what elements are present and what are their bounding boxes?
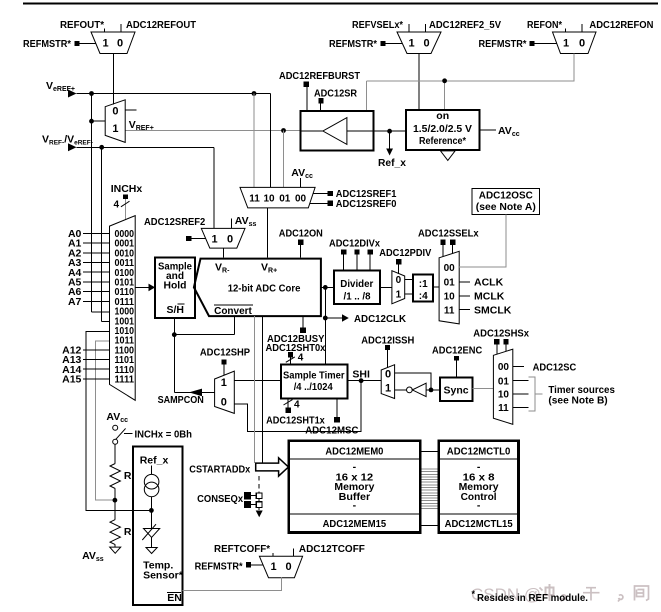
wire VeREF+ down to channel mux input 1000 and to mux U4 input 1 [89,94,109,313]
net ADC12OSC to mux U8 input 00 [459,215,506,268]
svg-text:0: 0 [117,38,123,50]
svg-text:ADC12ENC: ADC12ENC [432,344,483,356]
svg-text:ADC12REFON: ADC12REFON [589,19,653,31]
bracket timer sources [529,377,543,411]
svg-text:ADC12SHSx: ADC12SHSx [473,327,529,339]
wire switch to resistor R1 [114,444,116,463]
wire ADC12BUSY from core [302,316,304,327]
label SHI [352,369,370,381]
svg-text:-: - [477,500,481,512]
label AVcc above SREF mux [291,167,313,180]
svg-text:Resides in REF module.: Resides in REF module. [477,593,588,604]
svg-text:Ref_x: Ref_x [140,455,169,467]
svg-text:/1 .. /8: /1 .. /8 [344,290,371,302]
open squares on sequence line [256,493,262,508]
net EN from mux U13 to temp sensor [183,578,282,591]
svg-text:01: 01 [444,278,456,289]
svg-text:ADC12SC: ADC12SC [533,361,577,373]
label SAMPCON [158,394,204,406]
pin square ADC12SHT0x with bus slash 4 [286,352,304,364]
svg-text:CSTARTADDx: CSTARTADDx [189,464,250,476]
mux U3 REFON (1 0) [553,32,597,54]
buffer amplifier U5 (reference buffer) [300,111,373,151]
wire buffer output to reference block [373,129,406,134]
svg-text:REFMSTR*: REFMSTR* [23,38,72,50]
net SHI routed down to SHP mux input 0 [234,381,361,432]
block arrow CSTARTADDx into memory [256,458,289,476]
switch INCHx = 0Bh [113,425,133,444]
pin stub ADC12REFON to mux U3 [581,24,583,32]
svg-text:0: 0 [227,234,233,246]
label AVss above mux U6 [235,215,257,228]
wire REFMSTR* to mux U13 [251,564,263,566]
svg-text:AVss: AVss [235,215,257,228]
memory buffer block ADC12MEM [289,441,421,533]
label CONSEQx [197,493,243,505]
wire REFMSTR* to mux U1 [80,43,96,45]
mux U2 REFVSEL (1 0) [397,32,441,54]
wire REFMSTR* to mux U2 [386,43,403,45]
svg-text:1: 1 [408,38,414,50]
svg-text:(see Note B): (see Note B) [548,395,607,407]
pin stub AVss to mux U6 input 0 [230,219,232,229]
wire SHS mux output to Sync [472,387,493,389]
pin squares ADC12DIVx [341,249,373,254]
wire ADC12ISSH into mux U10 [386,350,388,368]
pin ADC12SREF0 [310,198,397,210]
svg-text:REFOUT*: REFOUT* [60,19,105,31]
svg-text:Divider: Divider [340,278,373,290]
wires timer source inputs [513,381,529,408]
pin stub ADC12REFOUT to mux U1 [120,24,122,32]
pin stub REFON* to mux U3 [565,29,567,33]
node Ref_x output arrow [386,131,393,155]
svg-text:REFON*: REFON* [527,19,563,31]
wire ADC12SC input [513,361,577,373]
svg-text:00: 00 [498,362,510,373]
wire U1 output down to mux U4 input 0 [113,54,115,105]
label Ref_x inside temp sensor [140,455,169,467]
label ADC12PDIV [379,247,431,259]
svg-text:S/H: S/H [167,304,185,316]
svg-text:/4 ../1024: /4 ../1024 [294,381,333,393]
label REFTCOFF* [214,543,271,555]
svg-text:R: R [124,526,132,538]
svg-text:Convert: Convert [214,305,252,317]
svg-text:00: 00 [295,193,307,204]
pin square ADC12REFBURST [304,82,310,88]
wires :1 :4 box to mux U7 [405,280,414,295]
op-amp 12-bit ADC Core [194,259,321,317]
svg-text:ADC12REF2_5V: ADC12REF2_5V [429,19,501,31]
label REFVSELx* [352,19,404,31]
wire channel mux output into sample and hold [135,284,155,292]
label VeREF+ input [46,80,75,93]
wire ADC12PDIV into mux U7 [398,264,400,273]
svg-text:Sample Timer: Sample Timer [283,370,345,382]
pin squares CONSEQx [244,492,251,508]
inverter U11 [395,383,427,396]
label AVcc at battery switch [106,411,128,424]
svg-text:1: 1 [112,123,118,135]
svg-text:R: R [124,470,132,482]
net SAMPCON from mux U9 to S/H and core convert [172,316,234,396]
svg-text:1: 1 [385,382,391,394]
label AVcc at reference right [480,125,520,138]
current source I1 [144,474,159,496]
mux U7 PDIV (0 1) [392,271,405,304]
net SHI from ISSH mux output to sample timer [347,378,381,383]
wire divider node to R2 [114,500,116,519]
mux U1 REFOUT (1 0) [91,32,135,54]
svg-text:ADC12MEM15: ADC12MEM15 [323,518,387,530]
pin square ADC12PDIV [396,259,401,264]
pin square REFMSTR* U2 [381,41,386,46]
pin square ADC12SHP [222,359,227,364]
wire MEM15 to MCTL15 [420,524,439,526]
svg-text:Hold: Hold [164,279,187,291]
label AVss [82,550,104,563]
analog inputs A12-A15 [62,344,109,385]
pin stub ADC12REF2_5V to mux U2 [424,24,426,32]
svg-text:INCHx: INCHx [111,183,143,195]
stub on mux U4 output 0 [125,109,136,111]
channel input mux (16:1) [110,216,136,401]
svg-text:01: 01 [498,376,510,387]
net REFON enable: U3 output down, left along y=80.8, taps to reference and buffer [366,54,574,111]
label ADC12DIVx [329,238,380,250]
svg-text:-: - [353,500,357,512]
ground marker below reference block [441,151,456,161]
wire R1 to divider node [113,489,118,503]
analog inputs A0-A7 [68,228,110,308]
svg-text:1: 1 [221,377,227,389]
block ADC12OSC (see Note A) [472,189,539,215]
diode D1 temp sense [142,524,159,540]
svg-text:4: 4 [114,200,120,211]
label REFON* [527,19,563,31]
svg-text:00: 00 [444,263,456,274]
svg-text:SMCLK: SMCLK [474,304,512,316]
label ADC12SHP [200,346,250,358]
pin square ADC12ENC [454,356,459,361]
svg-text:11: 11 [498,403,509,414]
resistor R2 [110,520,132,545]
label ADC12BUSY [267,333,324,345]
wire VREF- down to channel mux input 1001 [102,147,110,321]
wire conversion data from core to memory (black) [262,316,264,463]
pin square REFMSTR* U1 [75,41,80,46]
svg-text:0: 0 [285,561,291,573]
svg-text::1: :1 [419,279,428,290]
wire conversion data from core to memory (gray) [254,316,256,463]
label ADC12ENC [432,344,483,356]
label ADC12SR [314,88,357,100]
svg-text:0: 0 [579,38,585,50]
pin stub REFVSELx* to mux U2 [408,24,410,32]
svg-text:ADC12DIVx: ADC12DIVx [329,238,380,250]
wire MCLK input [459,291,505,303]
wire SMCLK input [459,304,512,316]
svg-text:AVss: AVss [82,550,104,563]
temp sensor block [133,447,183,605]
divider block /1../8 [334,270,380,303]
svg-text:on: on [436,110,449,122]
svg-text:Ref_x: Ref_x [378,157,406,169]
wire U7 output to divider [380,286,392,288]
wire ADC12SHP into mux U9 [223,364,225,375]
wire ADC12SREF2 to mux U6 [192,238,206,240]
label ADC12SREF2 [144,216,205,228]
svg-text:REFTCOFF*: REFTCOFF* [214,543,271,555]
label ADC12TCOFF [299,543,366,555]
predivider block :1 :4 [413,274,433,302]
label REFMSTR* (U1 select) [23,38,72,50]
wire U6 output to ADC core VR- [222,248,224,258]
wire current source to diode, node [149,497,154,529]
input arrow VREF- [68,143,77,151]
svg-text:REFMSTR*: REFMSTR* [479,38,528,50]
label ADC12CLK [354,313,406,325]
sample timer block [281,364,348,398]
mux U10 ISSH (0 1) [381,365,394,399]
svg-text:10: 10 [498,390,510,401]
wires ADC12SSELx into mux U8 [443,245,453,257]
pin ADC12SREF1 [313,188,397,200]
label ADC12REF2_5V [429,19,501,31]
reference block (1.5/2.0/2.5 V Reference*) [406,110,480,150]
input arrow VeREF+ [68,90,77,98]
svg-text:ADC12SHP: ADC12SHP [200,346,250,358]
wire U2 output down into reference block [418,54,420,111]
mux U6 SREF2 (1 0) [201,228,245,248]
label ADC12REFOUT [126,19,197,31]
pin square ADC12ISSH [385,345,390,350]
label ADC12SHSx [473,327,529,339]
svg-text:1: 1 [102,38,108,50]
svg-text:4: 4 [298,352,304,363]
pin square ADC12SREF2 [186,236,191,241]
label ADC12REFON [589,19,653,31]
label REFMSTR* (U2 select) [329,38,378,50]
watermark [471,584,649,604]
svg-text:REFMSTR*: REFMSTR* [329,38,378,50]
svg-text::4: :4 [419,291,428,302]
svg-text:10: 10 [263,193,275,204]
svg-text:01: 01 [279,193,291,204]
svg-text:AVcc: AVcc [106,411,128,424]
svg-text:VREF+: VREF+ [129,119,154,132]
sample and hold block [155,258,195,319]
wire SREF mux output to ADC core VR+ [266,208,268,258]
svg-text:0: 0 [112,106,118,118]
svg-text:*: * [472,589,476,599]
wire REFMSTR* to mux U3 [535,43,557,45]
wire ADC12ENC into Sync [455,361,457,378]
mux U8 SSEL (00 01 10 11) [439,251,459,324]
svg-text:A7: A7 [68,296,82,308]
net temp sensor channel 1010 [86,331,151,510]
svg-text:(see Note A): (see Note A) [476,201,536,213]
svg-text:A15: A15 [62,374,81,386]
label ADC12ISSH [361,334,414,346]
ground AVss below R2 [110,545,121,554]
svg-text:ADC12SREF0: ADC12SREF0 [336,198,397,210]
label INCHx = 0Bh [135,429,193,441]
svg-text:12-bit ADC Core: 12-bit ADC Core [228,282,301,294]
svg-text:1111: 1111 [115,375,135,386]
wires ADC12SHSx into mux U12 [497,344,506,354]
pin square ADC12BUSY [300,328,306,334]
svg-text:4: 4 [294,400,300,411]
svg-text:ACLK: ACLK [474,277,504,289]
wire MEM0 to MCTL0 [420,451,439,453]
wires CONSEQx to dashed sequence line [251,496,256,505]
svg-text:0: 0 [221,396,227,408]
svg-text:1: 1 [563,38,569,50]
wire ADC12REFBURST into buffer [306,87,308,111]
svg-text:AVcc: AVcc [291,167,313,180]
label Timer sources (see Note B) [548,384,615,407]
label REFMSTR* (U3 select) [479,38,528,50]
svg-text:ADC12PDIV: ADC12PDIV [379,247,431,259]
pin square REFMSTR* U3 [530,41,535,46]
svg-text:AVcc: AVcc [498,125,520,138]
label INCHx [111,183,143,195]
ground marker below diode [146,537,157,553]
pin stub AVcc to SREF mux input 00 [299,178,301,187]
svg-text:Sensor*: Sensor* [143,570,184,582]
svg-text:MCLK: MCLK [474,291,505,303]
svg-text:10: 10 [444,292,456,303]
memory control block ADC12MCTL [439,441,519,533]
label REFOUT* [60,19,105,31]
svg-text:VR-: VR- [215,262,230,275]
pin stub REFTCOFF* to mux U13 [272,553,274,557]
svg-text:ADC12OSC: ADC12OSC [479,190,533,202]
pin stub REFOUT* to mux U1 [103,29,105,33]
svg-text:11: 11 [444,305,455,316]
svg-text:1: 1 [211,234,217,246]
label Ref_x [378,157,406,169]
svg-text:REFVSELx*: REFVSELx* [352,19,404,31]
label VREF+ [129,119,154,132]
resistor R1 [110,464,132,489]
wire ADC12SR into buffer [320,103,322,111]
svg-text:0: 0 [396,275,402,286]
svg-text:ADC12MCTL15: ADC12MCTL15 [445,518,513,530]
dashed conversion sequence line with arrow [256,476,263,517]
label REFMSTR* (U13 select) [195,560,244,572]
svg-text:ADC12REFOUT: ADC12REFOUT [126,19,197,31]
net battery divider channel 1011 [95,341,114,500]
svg-text:INCHx = 0Bh: INCHx = 0Bh [135,429,193,441]
top rule bar [23,3,658,5]
net VeREF+ rail to SREF mux inputs 11 and 10 [77,91,271,187]
label ADC12ON [279,228,323,240]
net VREF+ rail from mux U4 to buffer, tap to SREF mux input 01 [125,128,300,187]
mux U12 SHS (00 01 10 11) [493,349,512,424]
svg-text:ADC12SREF2: ADC12SREF2 [144,216,205,228]
svg-text:1: 1 [270,561,276,573]
wire INCHx select into channel mux with bus slash 4 [114,199,130,219]
wire Sync output to inverter and mux U10 input 0 [395,373,440,392]
svg-text:1: 1 [396,290,402,301]
footnote Resides in REF module [472,589,589,604]
mux U13 REFTCOFF (1 0) [259,556,302,577]
svg-text:CONSEQx: CONSEQx [197,493,243,505]
pin square ADC12ON [298,240,303,245]
svg-text:ADC12MEM0: ADC12MEM0 [325,446,383,458]
pin square ADC12SR [318,98,323,103]
bus hatching between memory blocks [422,469,438,509]
mux SREF reference select (11 10 01 00) [240,187,315,208]
svg-text:ADC12ON: ADC12ON [279,228,323,240]
pin square ADC12SHT1x with bus slash 4 [284,399,301,413]
pin square INCHx [123,194,128,199]
svg-text:ADC12TCOFF: ADC12TCOFF [299,543,366,555]
label ADC12SHT1x [266,415,325,427]
wire sample timer output to mux U9 input 1 [234,380,280,382]
svg-text:ADC12SR: ADC12SR [314,88,357,100]
svg-text:11: 11 [249,193,260,204]
svg-text:ADC12REFBURST: ADC12REFBURST [279,70,361,82]
net ADC12CLK down to sample timer [323,287,349,364]
wire divider to ADC core clock with junction [321,285,334,290]
wire Ref_x to current source [151,466,153,475]
label EN with overline [167,592,182,604]
label ADC12SHT0x [266,342,326,354]
net VREF- rail to SREF2 mux input 1 [77,145,214,228]
wire SSEL mux output to predivider [433,286,439,288]
svg-text:ADC12MSC: ADC12MSC [305,425,359,437]
svg-text:ADC12MCTL0: ADC12MCTL0 [447,446,511,458]
pin squares ADC12SSELx [440,240,455,245]
pin square REFMSTR* U13 [246,562,251,567]
svg-text:EN: EN [167,592,182,604]
svg-text:0: 0 [423,38,429,50]
label ADC12REFBURST [279,70,361,82]
label Temp. Sensor* [143,560,184,582]
wires ADC12DIVx into divider [344,255,371,271]
svg-text:ADC12CLK: ADC12CLK [354,313,406,325]
label CSTARTADDx [189,464,250,476]
svg-text:1.5/2.0/2.5 V: 1.5/2.0/2.5 V [413,123,472,135]
block Sync [440,378,472,402]
mux U9 SHP (1 0) [215,371,235,413]
svg-text:ADC12SHT0x: ADC12SHT0x [266,342,326,354]
svg-text:Sync: Sync [444,384,469,396]
label ADC12MSC [305,425,359,437]
label VREF-/VeREF- input [42,134,93,147]
label ADC12SSELx [418,228,479,240]
svg-text:SAMPCON: SAMPCON [158,394,204,406]
svg-text:ADC12SSELx: ADC12SSELx [418,228,479,240]
wire ACLK input [459,277,503,289]
pin square ADC12MSC [334,399,340,423]
svg-text:VR+: VR+ [261,262,277,275]
pin stub ADC12TCOFF to mux U13 [293,549,295,557]
svg-text:REFMSTR*: REFMSTR* [195,560,244,572]
svg-text:0: 0 [385,368,391,380]
wire ADC12ON into ADC core [299,245,301,258]
mux U4 VREF+ select (0 1) [105,100,125,143]
svg-text:Reference*: Reference* [419,135,467,147]
pin squares ADC12SHSx [494,339,508,344]
svg-text:ADC12ISSH: ADC12ISSH [361,334,414,346]
svg-text:VREF-/VeREF-: VREF-/VeREF- [42,134,93,147]
